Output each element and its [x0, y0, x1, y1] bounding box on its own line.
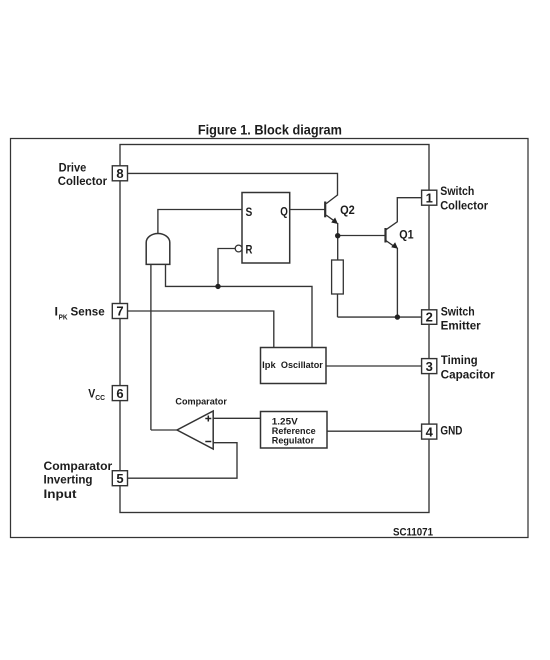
svg-text:3: 3 — [426, 359, 433, 374]
svg-text:PK: PK — [59, 312, 68, 321]
svg-text:S: S — [246, 205, 253, 219]
svg-text:Collector: Collector — [440, 200, 488, 213]
svg-text:GND: GND — [440, 425, 462, 438]
svg-text:Switch: Switch — [440, 185, 474, 198]
svg-text:2: 2 — [426, 310, 433, 325]
svg-text:I: I — [55, 306, 59, 319]
svg-text:Sense: Sense — [71, 306, 106, 319]
svg-text:Oscillator: Oscillator — [281, 360, 323, 370]
svg-text:CC: CC — [95, 393, 105, 402]
svg-text:Comparator: Comparator — [44, 460, 113, 473]
svg-text:Reference: Reference — [272, 426, 316, 436]
svg-text:Timing: Timing — [441, 354, 478, 367]
svg-text:Input: Input — [44, 488, 77, 501]
svg-text:5: 5 — [116, 471, 123, 486]
svg-text:1: 1 — [426, 190, 433, 205]
svg-text:SC11071: SC11071 — [393, 527, 433, 539]
svg-text:Inverting: Inverting — [44, 474, 93, 487]
svg-text:Regulator: Regulator — [272, 436, 315, 446]
svg-text:Ipk: Ipk — [262, 360, 276, 370]
svg-text:Figure 1. Block diagram: Figure 1. Block diagram — [198, 123, 342, 138]
svg-text:8: 8 — [116, 166, 123, 181]
svg-text:Q1: Q1 — [399, 227, 414, 241]
svg-text:6: 6 — [116, 386, 123, 401]
svg-text:Q: Q — [280, 205, 288, 219]
svg-text:Comparator: Comparator — [175, 396, 227, 406]
svg-text:Collector: Collector — [58, 175, 108, 188]
svg-text:Drive: Drive — [59, 161, 87, 174]
svg-text:7: 7 — [116, 304, 123, 319]
svg-text:Capacitor: Capacitor — [441, 369, 495, 382]
svg-text:4: 4 — [426, 424, 434, 439]
svg-text:R: R — [246, 243, 253, 257]
svg-text:Q2: Q2 — [340, 203, 355, 217]
svg-text:Emitter: Emitter — [441, 320, 481, 333]
svg-text:Switch: Switch — [441, 305, 475, 318]
